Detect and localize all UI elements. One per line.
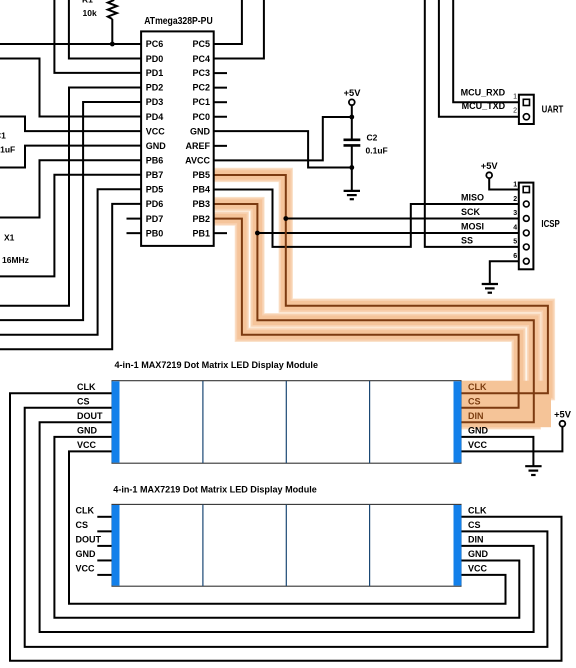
svg-text:UART: UART	[542, 105, 564, 116]
capacitor C2 plates	[344, 140, 361, 146]
svg-text:VCC: VCC	[77, 440, 97, 450]
module1 box	[112, 381, 461, 464]
svg-text:ICSP: ICSP	[541, 219, 560, 230]
svg-text:3: 3	[513, 210, 517, 217]
highlighted wire SS: PB2 to module1 CS	[214, 219, 519, 408]
svg-text:PC0: PC0	[192, 112, 210, 122]
ground symbol module1	[525, 466, 541, 475]
wire MOSI to ICSP	[257, 232, 523, 234]
svg-text:PD3: PD3	[146, 97, 164, 107]
svg-text:X1: X1	[4, 233, 15, 243]
module2 right pin labels	[468, 506, 489, 574]
pin stub PB1	[214, 232, 227, 234]
svg-text:DIN: DIN	[468, 535, 484, 545]
junction dot C2/GND	[349, 165, 354, 170]
highlighted net soft outer bands	[214, 175, 548, 422]
svg-text:MOSI: MOSI	[461, 222, 484, 232]
svg-text:VCC: VCC	[468, 564, 488, 574]
ground symbol ICSP	[482, 284, 498, 293]
wire PC5 net	[214, 0, 242, 44]
wire bus CS m1-m2	[25, 408, 548, 647]
svg-text:CS: CS	[76, 520, 89, 530]
module1 divider 1	[202, 381, 204, 463]
ICSP pin 3 circle	[523, 216, 529, 222]
svg-text:4: 4	[513, 225, 517, 232]
connector UART box	[519, 95, 534, 124]
wire PD1 net	[54, 0, 141, 73]
svg-text:SS: SS	[461, 236, 473, 246]
svg-text:VCC: VCC	[468, 440, 488, 450]
wire PD6 net	[0, 204, 141, 349]
power +5V circle (module1)	[560, 421, 566, 427]
module1 divider 3	[369, 381, 371, 463]
svg-text:1: 1	[513, 93, 517, 100]
wire +5V to C2	[351, 105, 353, 139]
power +5V circle (C2 area)	[349, 99, 355, 105]
svg-text:GND: GND	[77, 426, 98, 436]
pin stub module2 DOUT	[97, 545, 112, 547]
svg-text:PD7: PD7	[146, 214, 164, 224]
pin stub PD7	[127, 218, 142, 220]
wire bus GND m1-m2	[54, 437, 519, 618]
module1 right connector bar	[454, 381, 462, 462]
wire MISO net (PB4)	[214, 190, 524, 247]
ICSP pin 1 square	[523, 186, 529, 192]
pin stub module2 CS	[97, 530, 112, 532]
wire PD3 net	[0, 102, 141, 320]
svg-text:ATmega328P-PU: ATmega328P-PU	[144, 15, 213, 27]
svg-text:GND: GND	[190, 126, 211, 136]
pin stub PB0	[127, 232, 142, 234]
svg-text:10k: 10k	[83, 8, 97, 18]
svg-text:+5V: +5V	[554, 410, 572, 420]
wire AVCC net	[214, 117, 352, 160]
wire PD0 net	[69, 0, 141, 59]
svg-text:0.1uF: 0.1uF	[0, 145, 15, 155]
wire GND left net	[0, 146, 141, 168]
wire ICSP pin6 to ground	[490, 261, 523, 283]
svg-text:PB1: PB1	[192, 228, 210, 238]
svg-text:PD4: PD4	[146, 112, 164, 122]
svg-text:CLK: CLK	[76, 506, 95, 516]
wire bus DOUT-DIN m1-m2	[40, 422, 534, 632]
svg-text:5: 5	[513, 239, 517, 246]
svg-text:R1: R1	[82, 0, 93, 5]
highlighted wire SCK: PB5 to module1 CLK	[214, 175, 548, 393]
IC U1 ATmega328P-PU box	[141, 31, 214, 246]
svg-text:PB3: PB3	[192, 199, 210, 209]
svg-text:GND: GND	[468, 426, 489, 436]
wire ICSP +5V to pin1	[489, 178, 523, 189]
wire bus CLK m1-m2	[10, 393, 562, 661]
wire bus VCC m1-m2	[69, 451, 506, 603]
UART pin 1 square	[523, 99, 529, 105]
svg-text:VCC: VCC	[76, 564, 96, 574]
wire PD2 net	[0, 87, 141, 305]
svg-text:CLK: CLK	[468, 382, 487, 392]
svg-text:MISO: MISO	[461, 193, 484, 203]
wire PB6 net	[0, 160, 141, 217]
highlight label area module1 right	[461, 381, 551, 428]
svg-text:1: 1	[513, 181, 517, 188]
module2 left pin labels	[76, 506, 102, 574]
module2 divider 2	[285, 505, 287, 586]
svg-text:PB0: PB0	[146, 228, 164, 238]
svg-text:PD6: PD6	[146, 199, 164, 209]
pin stub PC3	[214, 72, 227, 74]
svg-text:GND: GND	[146, 141, 167, 151]
IC right pin labels	[185, 39, 210, 238]
pin stub PC1	[214, 101, 227, 103]
module2 right connector bar	[454, 505, 462, 586]
svg-text:PD1: PD1	[146, 68, 164, 78]
svg-text:+5V: +5V	[344, 88, 362, 98]
wire PC6 net	[0, 43, 141, 45]
svg-text:SCK: SCK	[461, 207, 481, 217]
wire PD5 net	[0, 189, 141, 334]
svg-text:C1: C1	[0, 131, 6, 141]
pin stub PC2	[214, 87, 227, 89]
wire C2 bottom to ground	[351, 146, 353, 191]
svg-text:PD5: PD5	[146, 185, 164, 195]
ICSP pin 2 circle	[523, 201, 529, 207]
pin stub module2 VCC	[97, 574, 112, 576]
junction dot +5V/AVCC	[349, 115, 354, 120]
resistor R1 lead	[111, 19, 113, 44]
svg-text:PB5: PB5	[192, 170, 210, 180]
wire SCK to ICSP	[286, 218, 523, 220]
wire PC4 net	[214, 0, 264, 59]
IC left pin labels	[146, 39, 167, 238]
wire SS net	[425, 0, 523, 247]
UART pin 2 circle	[523, 114, 529, 120]
wire PD4 net	[0, 59, 141, 117]
junction dot SCK tap	[283, 216, 288, 221]
ICSP pin 6 circle	[523, 258, 529, 264]
pin stub PC0	[214, 116, 227, 118]
wire PB7 net	[0, 175, 141, 277]
svg-text:AREF: AREF	[186, 141, 211, 151]
svg-text:2: 2	[513, 107, 517, 114]
svg-text:PD2: PD2	[146, 83, 164, 93]
module1 divider 2	[285, 381, 287, 463]
wire VCC net	[0, 117, 141, 132]
junction dot MOSI tap	[255, 231, 260, 236]
svg-text:PD0: PD0	[146, 54, 164, 64]
svg-text:PC4: PC4	[192, 54, 210, 64]
power +5V circle (ICSP)	[486, 172, 492, 178]
svg-text:CLK: CLK	[77, 382, 96, 392]
svg-text:+5V: +5V	[481, 161, 499, 171]
svg-text:DOUT: DOUT	[76, 535, 102, 545]
svg-text:CS: CS	[468, 520, 481, 530]
svg-text:MCU_RXD: MCU_RXD	[461, 88, 506, 98]
svg-text:GND: GND	[76, 549, 97, 559]
svg-text:PC3: PC3	[192, 68, 210, 78]
wire UART RXD	[453, 0, 523, 102]
pin stub module2 GND	[97, 559, 112, 561]
svg-text:PB4: PB4	[192, 185, 210, 195]
wire module1 GND to ground	[461, 437, 533, 466]
svg-text:PC2: PC2	[192, 83, 210, 93]
svg-text:C2: C2	[367, 133, 378, 143]
wire UART TXD	[439, 0, 523, 117]
svg-text:PC1: PC1	[192, 97, 210, 107]
svg-text:CS: CS	[77, 396, 90, 406]
svg-text:6: 6	[513, 253, 517, 260]
highlighted wire MOSI: PB3 to module1 DIN	[214, 204, 534, 422]
svg-text:PB2: PB2	[192, 214, 210, 224]
UART labels	[461, 88, 506, 111]
wire module1 VCC to +5V	[461, 427, 562, 451]
svg-text:PB6: PB6	[146, 155, 164, 165]
module1 right pin labels	[468, 382, 489, 450]
svg-text:DOUT: DOUT	[77, 411, 103, 421]
pin stub AREF	[214, 145, 227, 147]
module2 divider 3	[369, 505, 371, 586]
ICSP labels	[461, 193, 484, 246]
svg-text:CS: CS	[468, 396, 481, 406]
highlighted net mid bands	[214, 175, 548, 422]
ICSP pin 5 circle	[523, 244, 529, 250]
svg-text:DIN: DIN	[468, 411, 484, 421]
ICSP pin 4 circle	[523, 230, 529, 236]
module1 left connector bar	[112, 381, 120, 462]
module2 box	[112, 504, 461, 586]
svg-text:GND: GND	[468, 549, 489, 559]
connector ICSP box	[519, 183, 534, 270]
svg-text:4-in-1 MAX7219 Dot Matrix LED: 4-in-1 MAX7219 Dot Matrix LED Display Mo…	[113, 484, 317, 494]
svg-text:VCC: VCC	[146, 126, 166, 136]
junction dot PC6/R1	[110, 42, 115, 47]
resistor R1 body	[108, 0, 117, 19]
svg-text:PC6: PC6	[146, 39, 164, 49]
module2 divider 1	[202, 505, 204, 586]
svg-text:CLK: CLK	[468, 506, 487, 516]
wire GND right net	[214, 131, 352, 167]
module1 left pin labels	[77, 382, 103, 450]
ground symbol C2	[344, 191, 360, 199]
highlighted net bands core	[214, 175, 548, 422]
svg-text:MCU_TXD: MCU_TXD	[462, 101, 506, 111]
svg-text:16MHz: 16MHz	[2, 255, 29, 265]
svg-text:PC5: PC5	[192, 39, 210, 49]
module2 left connector bar	[112, 505, 120, 586]
pin stub module2 CLK	[97, 516, 112, 518]
svg-text:2: 2	[513, 196, 517, 203]
svg-text:AVCC: AVCC	[185, 155, 210, 165]
svg-text:PB7: PB7	[146, 170, 164, 180]
svg-text:0.1uF: 0.1uF	[366, 146, 388, 156]
svg-text:4-in-1 MAX7219 Dot Matrix LED: 4-in-1 MAX7219 Dot Matrix LED Display Mo…	[115, 360, 319, 370]
